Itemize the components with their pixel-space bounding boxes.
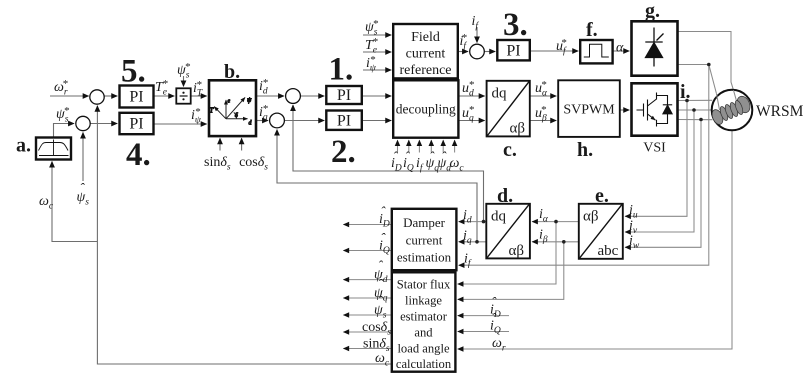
wire divider to block b iT* [191,95,207,97]
wire sum2 to PI4 [90,123,117,125]
svg-text:Te*: Te* [365,36,378,56]
svg-text:αβ: αβ [509,243,525,259]
wire c to SVPWM ubeta* [530,120,556,122]
svg-text:ˆ: ˆ [378,259,384,274]
svg-text:uq*: uq* [462,104,474,124]
junction dot iq feedback [475,240,479,244]
wire damper output iQ_hat stub [344,250,392,252]
svg-text:uα*: uα* [535,79,548,99]
wire exciter g to WRSM field lower [678,65,717,94]
junction dot phase w tap [699,118,703,122]
wire psi_s* into divider [183,76,185,86]
wire sum1 to PI5 [104,95,117,97]
svg-text:ˆ: ˆ [380,232,386,247]
junction dot phase u tap [685,99,689,103]
svg-text:iα: iα [539,207,549,225]
svg-text:αβ: αβ [583,209,599,225]
svg-text:d: d [249,121,253,127]
svg-text:cosδs: cosδs [362,320,391,338]
svg-text:SVPWM: SVPWM [563,103,615,118]
wire e to d i_alpha [532,221,578,223]
wire b to sum_d id* [257,95,285,97]
wire PI2 to decoupling [362,120,391,122]
wire b to sum_q iq* [257,120,269,122]
wire id feedback to sum_d [293,105,484,222]
wire decoupling stub iQ_hat [408,140,410,152]
svg-text:ud*: ud* [462,79,474,99]
wire if measured stub into sum3 [476,27,478,43]
svg-text:ψ: ψ [247,96,252,104]
block f pulse symbol [584,44,609,57]
wire sum3 to PI3 [484,51,495,53]
damper current estimation block [392,209,457,270]
junction dot phase v tap [692,108,696,112]
svg-text:g.: g. [645,0,660,22]
divider block [176,88,190,103]
wire omega_r from WRSM to stator flux block [458,131,732,349]
svg-text:and: and [414,326,433,340]
svg-text:ψs*: ψs* [56,105,70,125]
svg-text:PI: PI [129,116,143,133]
summing junction flux loop [76,116,90,130]
wire stator output psi_q_hat stub [344,297,392,299]
svg-text:WRSM: WRSM [756,103,804,120]
wire c to SVPWM ualpha* [530,95,556,97]
wire exciter g to WRSM field top [678,32,734,91]
block b current reference vector box [209,80,256,136]
svg-text:iT*: iT* [193,79,203,99]
thyristor symbol in g [645,28,663,67]
wire e to d i_beta [532,241,578,243]
svg-text:αβ: αβ [510,121,526,137]
wire sum_q to PI2 [284,120,324,122]
IGBT with diode symbol in VSI [637,93,673,127]
wire decoupling stub omega_c [454,140,456,152]
svg-text:if: if [464,252,472,270]
summing junction q-axis current [270,113,285,128]
wire sin delta_s stub into block b [219,138,221,150]
wire i_alpha branch to stator flux block [458,222,556,284]
wire omega_r* input [50,95,89,97]
svg-text:i.: i. [680,81,691,103]
field current reference block [393,24,458,78]
svg-text:ωc: ωc [450,156,465,174]
svg-text:iψ*: iψ* [366,54,377,74]
wire stator input iQ_hat stub [458,331,509,333]
svg-text:calculation: calculation [396,357,452,371]
svg-text:sinδs cosδs: sinδs cosδs [204,155,268,173]
PI block 1 d-current controller [326,86,362,104]
svg-text:PI: PI [129,89,143,106]
svg-text:abc: abc [598,243,619,259]
summing junction speed loop [90,90,104,104]
wire decoupling to c ud* [459,95,485,97]
wire d to damper i_q [459,241,486,243]
wire iv tap to abc block [625,110,694,232]
PI block 5 speed controller [120,86,154,108]
wire decoupling stub psi_q_hat [430,140,432,152]
svg-text:Stator flux: Stator flux [397,278,451,292]
PI block 2 q-current controller [326,111,362,130]
svg-text:h.: h. [577,139,593,161]
block e alphabeta to abc [579,204,623,259]
block c dq to alphabeta [487,81,530,137]
wire i_beta branch to stator flux block [458,242,564,300]
decoupling block [393,80,458,137]
svg-text:T: T [210,107,215,115]
divider symbol [180,95,188,97]
wire block f to block g alpha [613,50,629,52]
svg-text:f.: f. [586,19,598,41]
svg-text:load angle: load angle [397,342,450,356]
svg-text:id: id [463,208,472,226]
wire PI1 to decoupling [362,95,391,97]
block a flux reference curve box [36,138,71,160]
svg-text:PI: PI [506,43,520,60]
svg-text:current: current [406,47,446,62]
block f firing angle pulse box [580,40,612,63]
svg-text:reference: reference [399,63,451,78]
svg-text:estimation: estimation [397,250,452,265]
svg-text:if*: if* [460,32,468,52]
wire iq feedback to sum_q [277,130,477,242]
svg-text:ˆ: ˆ [380,205,386,220]
svg-text:linkage: linkage [405,294,442,308]
stator flux estimator block [392,272,456,371]
wire decoupling stub iD_hat [397,140,399,152]
wire VSI phase v to WRSM [678,109,712,111]
svg-text:c.: c. [503,139,517,161]
junction dot i_alpha branch [554,220,558,224]
wire field ref input psi_s* stub [363,34,391,36]
wire if tap down to damper block [459,65,709,266]
wire d to damper i_d [459,221,486,223]
svg-text:iw: iw [629,234,640,252]
svg-text:id*: id* [259,77,268,97]
wire decoupling stub psi_d_hat [442,140,444,152]
svg-text:1.: 1. [329,52,354,88]
svg-text:Field: Field [411,30,440,45]
wire decoupling stub if [418,140,420,152]
wire field leads inside WRSM [734,90,737,101]
wire VSI phase u to WRSM [678,99,712,101]
block d dq to alphabeta current [486,204,530,259]
wire iu tap to abc block [625,101,687,217]
wire SVPWM to VSI [620,109,629,111]
wire stator output psi_s_hat stub [344,314,392,316]
svg-text:current: current [406,233,443,248]
svg-text:decoupling: decoupling [396,102,456,117]
summing junction d-axis current [286,89,301,104]
wire psi_s_hat feedback stub into sum2 [82,133,84,182]
wire iw tap to abc block [625,120,701,248]
wire sum_d to PI1 [300,95,324,97]
wire omega_c feedback from stator block to sum1 and block a [97,106,391,364]
svg-text:PI: PI [337,87,351,104]
svg-text:3.: 3. [503,7,528,43]
svg-text:if: if [472,14,480,32]
svg-text:ωr: ωr [492,336,506,354]
wire PI3 to block f uf* [530,50,578,52]
svg-text:PI: PI [337,113,351,130]
block b vector diagram [214,98,247,119]
wire cos delta_s stub into block b [241,138,243,150]
wire field ref input Te* stub [363,51,391,53]
PI block 3 field current controller [497,40,530,60]
wire stator output psi_d_hat stub [344,279,392,281]
svg-text:dq: dq [492,86,508,102]
svg-text:uf*: uf* [556,37,567,57]
svg-text:Te*: Te* [155,78,168,98]
svg-text:ˆ: ˆ [491,296,497,311]
wire VSI phase w to WRSM [678,119,712,121]
junction dot if tap [707,63,711,67]
VSI block [632,83,678,135]
svg-text:VSI: VSI [643,141,666,156]
SVPWM block [558,80,620,137]
svg-text:b.: b. [224,61,240,83]
svg-text:ψs*: ψs* [365,18,379,38]
junction dot i_beta branch [562,240,566,244]
wire stator output sin delta stub [344,348,392,350]
svg-text:uβ*: uβ* [535,104,547,124]
svg-text:5.: 5. [121,54,146,90]
svg-text:dq: dq [491,209,507,225]
svg-text:iq*: iq* [259,103,268,123]
wire stator output cos delta stub [344,331,392,333]
wire decoupling to c uq* [459,120,485,122]
svg-text:ωr*: ωr* [54,78,68,98]
svg-text:d.: d. [497,185,513,207]
svg-text:a.: a. [16,135,31,157]
svg-text:estimator: estimator [400,310,448,324]
WRSM machine circle [712,90,753,131]
block g thyristor rectifier exciter [632,21,678,75]
wire stator input iD_hat stub [458,315,509,317]
svg-text:Damper: Damper [403,215,446,230]
svg-text:iψ*: iψ* [191,106,202,126]
wire field ref to sum3 if* [458,51,468,53]
svg-text:4.: 4. [126,137,151,173]
summing junction field current [470,44,485,59]
svg-text:iβ: iβ [539,228,548,246]
svg-text:e: e [228,99,231,105]
wire field ref input ipsi* stub [363,69,391,71]
svg-text:ψs*: ψs* [177,61,191,81]
junction dot id feedback [482,220,486,224]
svg-text:α: α [616,41,624,56]
WRSM rotor coil symbol [717,90,737,110]
svg-text:iq: iq [463,229,472,247]
PI block 4 flux controller [120,113,154,134]
svg-text:e.: e. [595,185,609,207]
wire block a output psi_s* [54,124,75,138]
wire PI5 to divider Te* [154,95,174,97]
wire PI4 to block b ipsi* [154,123,207,125]
svg-text:2.: 2. [331,134,356,170]
wire damper output iD_hat stub [344,224,392,226]
block a curve [39,140,69,156]
svg-text:δ: δ [235,112,239,119]
